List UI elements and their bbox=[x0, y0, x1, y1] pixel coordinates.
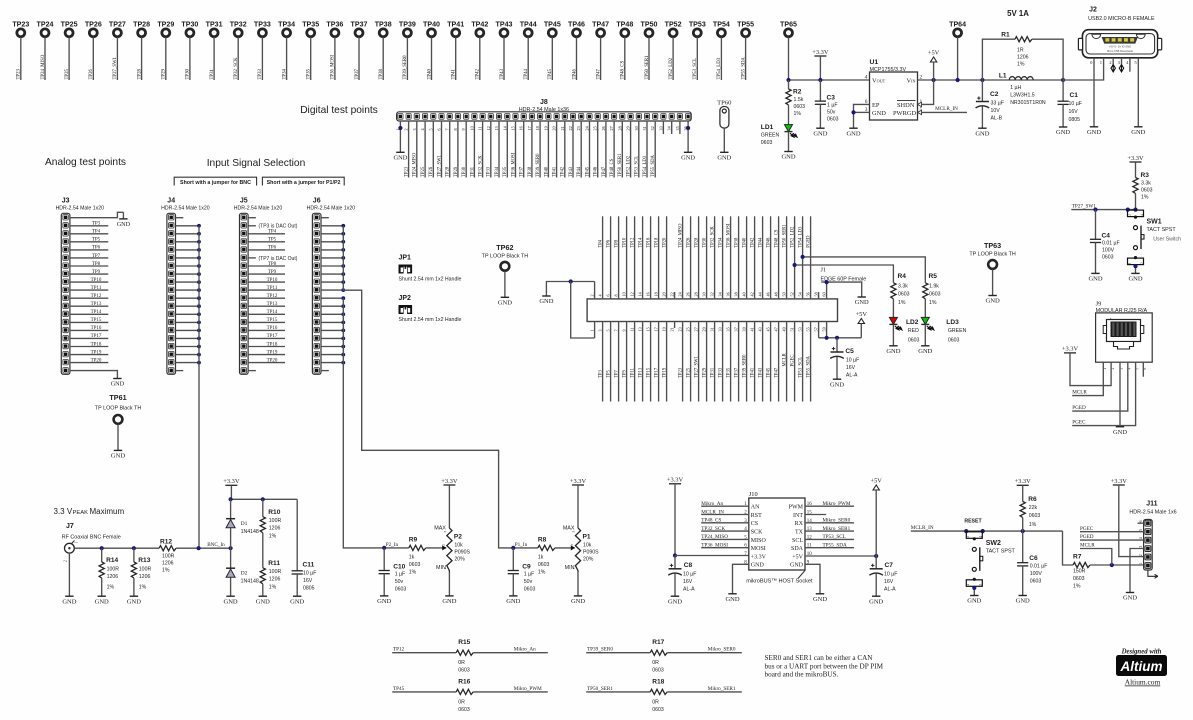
capacitor C8 10uF bbox=[673, 553, 677, 557]
svg-text:GND: GND bbox=[813, 130, 827, 137]
LED LD1 GREEN bbox=[785, 125, 793, 132]
svg-text:17: 17 bbox=[654, 327, 659, 331]
wire J4 pin5 to bus bbox=[176, 249, 200, 251]
svg-text:43: 43 bbox=[758, 327, 763, 331]
svg-text:TP55: TP55 bbox=[737, 21, 754, 29]
wire U1 EP GND to ground bbox=[854, 104, 870, 128]
wire J8 pin19 net TP40 bbox=[547, 121, 549, 178]
svg-text:0603: 0603 bbox=[652, 707, 664, 713]
svg-text:TP23: TP23 bbox=[679, 367, 684, 378]
svg-text:3: 3 bbox=[966, 536, 970, 538]
svg-text:1%: 1% bbox=[409, 570, 417, 576]
wire J1 pin25 net TP25 bbox=[690, 322, 692, 402]
svg-text:3: 3 bbox=[572, 531, 576, 533]
wire J4 pin3 to bus bbox=[176, 233, 200, 235]
wire J8 pin16 net TP37 bbox=[523, 121, 525, 178]
svg-text:INT: INT bbox=[793, 513, 803, 519]
wire J1 pin49 net MCLR bbox=[786, 322, 788, 402]
svg-text:GND: GND bbox=[62, 598, 76, 605]
svg-text:R4: R4 bbox=[898, 273, 907, 280]
svg-text:TP6: TP6 bbox=[268, 246, 277, 251]
svg-text:TP28: TP28 bbox=[137, 69, 142, 80]
diode D1 1N4148 bbox=[230, 499, 232, 518]
wire J3 pin15 net TP16 bbox=[70, 329, 108, 331]
svg-text:Mikro_SER1: Mikro_SER1 bbox=[823, 526, 851, 532]
wire J3 pin19 net TP20 bbox=[70, 362, 108, 364]
svg-text:TP11: TP11 bbox=[267, 286, 278, 291]
svg-text:TP26: TP26 bbox=[85, 21, 102, 29]
svg-text:TP13: TP13 bbox=[639, 367, 644, 378]
svg-text:16V: 16V bbox=[1069, 109, 1079, 115]
svg-text:1%: 1% bbox=[1073, 584, 1081, 590]
svg-text:0R: 0R bbox=[652, 699, 659, 705]
wire J2 pin3 D+ bbox=[1121, 58, 1123, 65]
wire J3 pin6 net TP7 bbox=[70, 257, 108, 259]
wire J1 pin46 net TP46 bbox=[770, 216, 772, 299]
wire J1 pin55 net TP55_SDA bbox=[810, 322, 812, 402]
svg-text:10k: 10k bbox=[454, 542, 463, 548]
svg-text:TP35: TP35 bbox=[727, 367, 732, 378]
svg-text:+3.3V: +3.3V bbox=[1062, 346, 1079, 353]
svg-text:TP11: TP11 bbox=[631, 367, 636, 378]
switch SW1 TACT SPST bbox=[1128, 210, 1144, 217]
svg-text:20%: 20% bbox=[583, 557, 594, 563]
svg-text:TP45: TP45 bbox=[393, 686, 405, 692]
wire J10 pin9 GND bbox=[805, 564, 820, 594]
svg-text:+5V D- D+ ID GND: +5V D- D+ ID GND bbox=[1109, 45, 1131, 49]
svg-text:R9: R9 bbox=[409, 536, 418, 543]
svg-text:RED: RED bbox=[908, 328, 919, 334]
svg-text:TP6: TP6 bbox=[92, 246, 101, 251]
svg-text:+3.3V: +3.3V bbox=[223, 478, 240, 485]
svg-text:1%: 1% bbox=[929, 300, 937, 306]
inductor L1 bbox=[1009, 77, 1033, 80]
svg-text:0805: 0805 bbox=[1069, 117, 1081, 123]
svg-text:36: 36 bbox=[726, 292, 731, 296]
svg-text:0603: 0603 bbox=[1030, 578, 1042, 584]
capacitor C3 bbox=[819, 80, 821, 101]
svg-text:GND: GND bbox=[725, 596, 739, 603]
resistor R4 bbox=[891, 283, 896, 299]
wire J1 pin44 net TP44 bbox=[762, 216, 764, 299]
wire PGED to J9 pin4 bbox=[1072, 362, 1128, 411]
svg-text:33: 33 bbox=[718, 327, 723, 331]
svg-text:C4: C4 bbox=[1102, 233, 1111, 240]
svg-text:31: 31 bbox=[642, 126, 647, 130]
svg-text:TP27_SW1: TP27_SW1 bbox=[695, 355, 700, 378]
svg-text:R1: R1 bbox=[1001, 32, 1010, 39]
svg-text:TP52_LD2: TP52_LD2 bbox=[791, 226, 796, 248]
wire J8 pin28 net TP50_SER1 bbox=[621, 121, 623, 178]
wire J6 pin11 to bus bbox=[321, 297, 343, 299]
svg-text:1 µH: 1 µH bbox=[1010, 85, 1021, 91]
capacitor C5 10uF bbox=[836, 338, 838, 352]
wire J4 pin12 to bus bbox=[176, 305, 200, 307]
svg-text:TP38: TP38 bbox=[735, 237, 740, 248]
svg-text:TP32_SCK: TP32_SCK bbox=[711, 226, 716, 248]
wire J3 pin18 net TP19 bbox=[70, 354, 108, 356]
svg-text:TP8: TP8 bbox=[92, 262, 101, 267]
svg-text:0603: 0603 bbox=[538, 562, 550, 568]
svg-text:TP34: TP34 bbox=[282, 69, 287, 80]
ground SW1 bbox=[1131, 272, 1139, 274]
svg-text:U1: U1 bbox=[870, 59, 879, 66]
capacitor C9 bbox=[512, 548, 514, 571]
svg-text:USB2.0 MICRO-B FEMALE: USB2.0 MICRO-B FEMALE bbox=[1088, 16, 1155, 22]
svg-text:TP50_SER1: TP50_SER1 bbox=[587, 686, 613, 692]
svg-text:TP26: TP26 bbox=[89, 69, 94, 80]
svg-text:18: 18 bbox=[654, 292, 659, 296]
svg-text:1%: 1% bbox=[107, 585, 115, 591]
ground TP62 bbox=[501, 296, 509, 298]
wire J1 pin47 net TP47 bbox=[778, 322, 780, 402]
wire LD3 to GND bbox=[924, 324, 926, 345]
svg-text:R6: R6 bbox=[1028, 496, 1037, 503]
svg-text:TP62: TP62 bbox=[496, 243, 513, 252]
svg-text:MCLR: MCLR bbox=[1072, 390, 1087, 396]
capacitor C10 bbox=[383, 548, 385, 571]
svg-text:AL-A: AL-A bbox=[884, 587, 896, 593]
wire J1 pin13 net TP13 bbox=[642, 322, 644, 402]
svg-text:TP48_CS: TP48_CS bbox=[610, 158, 615, 177]
wire 3.3V rail bbox=[789, 79, 870, 81]
svg-text:TP64: TP64 bbox=[949, 21, 966, 29]
svg-text:R5: R5 bbox=[929, 273, 938, 280]
svg-text:TP63: TP63 bbox=[984, 241, 1001, 250]
svg-text:TP LOOP Black TH: TP LOOP Black TH bbox=[482, 253, 529, 259]
ground P2 bbox=[445, 595, 453, 597]
resistor R7 bbox=[1063, 531, 1074, 565]
svg-text:TP42: TP42 bbox=[751, 237, 756, 248]
svg-text:100R: 100R bbox=[139, 566, 152, 572]
svg-text:6: 6 bbox=[606, 294, 611, 296]
svg-text:TP54_LD3: TP54_LD3 bbox=[717, 57, 722, 79]
wire J8 pin11 net TP32_SCK bbox=[482, 121, 484, 178]
svg-text:TP15: TP15 bbox=[267, 318, 278, 323]
wire J1 pin58 stub bbox=[818, 292, 820, 299]
svg-text:TP25: TP25 bbox=[61, 21, 78, 29]
svg-text:TP48: TP48 bbox=[616, 21, 633, 29]
svg-text:GND: GND bbox=[1087, 129, 1101, 136]
svg-text:board and the mikroBUS.: board and the mikroBUS. bbox=[765, 671, 839, 679]
svg-text:9: 9 bbox=[461, 128, 466, 130]
svg-text:SHDN: SHDN bbox=[897, 102, 915, 109]
svg-text:TP4: TP4 bbox=[268, 230, 277, 235]
svg-text:1k: 1k bbox=[538, 555, 544, 561]
svg-text:TP14: TP14 bbox=[639, 237, 644, 248]
wire J10 pin13 Mikro_SER1 bbox=[805, 530, 854, 532]
wire J5 pin7 TP8 bbox=[248, 265, 285, 267]
svg-text:TP34: TP34 bbox=[278, 21, 295, 29]
wire J8 pin5 net TP26 bbox=[432, 121, 434, 178]
svg-text:41: 41 bbox=[750, 327, 755, 331]
svg-text:100R: 100R bbox=[162, 554, 175, 560]
svg-text:RF Coaxial BNC Female: RF Coaxial BNC Female bbox=[62, 535, 121, 541]
wire J4 pin11 to bus bbox=[176, 297, 200, 299]
svg-text:TP30: TP30 bbox=[703, 237, 708, 248]
ground R14 bbox=[98, 595, 106, 597]
wire J2 pin5 GND bbox=[1137, 58, 1139, 127]
svg-text:1206: 1206 bbox=[269, 576, 281, 582]
wire J4 pin7 to bus bbox=[176, 265, 200, 267]
svg-text:TP54_LD3: TP54_LD3 bbox=[643, 155, 648, 177]
svg-text:R8: R8 bbox=[538, 536, 547, 543]
svg-text:Mikro_PWM: Mikro_PWM bbox=[823, 501, 851, 507]
svg-text:0603: 0603 bbox=[948, 338, 960, 344]
svg-text:MCLR: MCLR bbox=[1080, 543, 1095, 549]
svg-text:0R: 0R bbox=[458, 699, 465, 705]
ground TP61 bbox=[114, 449, 122, 451]
wire J6 pin7 to bus bbox=[321, 265, 343, 267]
svg-text:26: 26 bbox=[601, 126, 606, 130]
svg-text:GND: GND bbox=[224, 598, 238, 605]
wire J5 pin8 TP9 bbox=[248, 273, 285, 275]
svg-text:27: 27 bbox=[609, 126, 614, 130]
svg-text:12: 12 bbox=[486, 126, 491, 130]
capacitor C11 bbox=[296, 499, 298, 571]
resistor R10 bbox=[262, 499, 264, 516]
svg-text:1%: 1% bbox=[1141, 195, 1149, 201]
svg-text:GND: GND bbox=[872, 110, 886, 117]
svg-text:TP7: TP7 bbox=[615, 370, 620, 378]
wire PGED to J11 pin4 bbox=[1080, 539, 1144, 541]
resistor R16 bbox=[456, 689, 473, 694]
wire J10 pin2 MCLR_IN bbox=[701, 514, 749, 516]
svg-text:50v: 50v bbox=[827, 110, 836, 116]
svg-text:TP47: TP47 bbox=[775, 367, 780, 378]
wire J5 pin6 (TP7 is DAC Out) bbox=[248, 257, 256, 259]
svg-text:5V 1A: 5V 1A bbox=[1007, 9, 1029, 18]
svg-text:15: 15 bbox=[511, 126, 516, 130]
svg-text:53: 53 bbox=[798, 327, 803, 331]
svg-text:HDR-2.54 Male 1x20: HDR-2.54 Male 1x20 bbox=[161, 206, 210, 212]
svg-text:Mikro_An: Mikro_An bbox=[701, 501, 723, 507]
ground TP63 bbox=[988, 295, 996, 297]
svg-text:49: 49 bbox=[782, 327, 787, 331]
svg-text:+3.3V: +3.3V bbox=[751, 554, 767, 560]
svg-text:J4: J4 bbox=[167, 198, 175, 205]
svg-text:GND: GND bbox=[1088, 276, 1102, 283]
svg-text:+3.3V: +3.3V bbox=[570, 478, 587, 485]
svg-text:TP30: TP30 bbox=[181, 21, 198, 29]
svg-text:100V: 100V bbox=[1030, 571, 1043, 577]
wire J5 pin4 TP5 bbox=[248, 241, 285, 243]
svg-text:GND: GND bbox=[571, 598, 585, 605]
svg-text:TP33: TP33 bbox=[258, 69, 263, 80]
wire J8 pin26 net TP47 bbox=[605, 121, 607, 178]
wire J1 pin28 net TP28 bbox=[698, 216, 700, 299]
svg-text:TP19: TP19 bbox=[267, 350, 278, 355]
wire J8 pin22 net TP43 bbox=[572, 121, 574, 178]
svg-text:C10: C10 bbox=[393, 564, 405, 571]
wire J4 pin9 to bus bbox=[176, 281, 200, 283]
wire J10 pin3 TP48_CS bbox=[701, 522, 749, 524]
svg-text:TP18: TP18 bbox=[91, 342, 102, 347]
svg-text:1.5k: 1.5k bbox=[794, 97, 804, 103]
wire J8 pin15 net TP36_MOSI bbox=[515, 121, 517, 178]
svg-text:Mikro_SER1: Mikro_SER1 bbox=[708, 686, 736, 692]
svg-text:22: 22 bbox=[568, 126, 573, 130]
net Mikro_An wire bbox=[473, 652, 548, 654]
wire J8 pin17 net TP38 bbox=[531, 121, 533, 178]
svg-text:20: 20 bbox=[662, 292, 667, 296]
svg-text:SDA: SDA bbox=[791, 546, 804, 552]
svg-text:TP39: TP39 bbox=[399, 21, 416, 29]
ground LD2 bbox=[889, 345, 897, 347]
svg-text:SCL: SCL bbox=[792, 538, 803, 544]
svg-text:TP43: TP43 bbox=[569, 166, 574, 177]
svg-text:16V: 16V bbox=[683, 579, 693, 585]
wire LD2 to GND bbox=[892, 324, 894, 345]
svg-text:R2: R2 bbox=[793, 89, 802, 96]
svg-text:0603: 0603 bbox=[652, 668, 664, 674]
wire J5 pin1 stub bbox=[248, 217, 256, 219]
wire J5 pin11 TP12 bbox=[248, 297, 285, 299]
svg-text:TP47: TP47 bbox=[592, 21, 609, 29]
svg-text:20: 20 bbox=[552, 126, 557, 130]
svg-text:EP: EP bbox=[872, 102, 880, 109]
wire J3 pin13 net TP14 bbox=[70, 313, 108, 315]
resistor R12 bbox=[159, 546, 176, 551]
svg-text:28: 28 bbox=[617, 126, 622, 130]
svg-text:TP LOOP Black TH: TP LOOP Black TH bbox=[95, 406, 142, 412]
wire J4 pin10 to bus bbox=[176, 289, 200, 291]
svg-text:1: 1 bbox=[395, 128, 400, 130]
svg-text:50: 50 bbox=[782, 292, 787, 296]
wire J1 pin20 net TP20 bbox=[666, 216, 668, 299]
svg-text:1: 1 bbox=[1127, 262, 1131, 264]
net Mikro_SER0 wire bbox=[667, 652, 742, 654]
ground C2 bbox=[978, 127, 986, 129]
svg-text:TP15: TP15 bbox=[647, 367, 652, 378]
svg-text:0603: 0603 bbox=[1141, 188, 1153, 194]
svg-text:TP42: TP42 bbox=[471, 21, 488, 29]
svg-text:TP43: TP43 bbox=[500, 69, 505, 80]
ground C5 bbox=[833, 378, 841, 380]
svg-text:TP28: TP28 bbox=[695, 237, 700, 248]
svg-text:GND: GND bbox=[918, 348, 932, 355]
wire J8 pin24 net TP45 bbox=[589, 121, 591, 178]
svg-text:26: 26 bbox=[686, 292, 691, 296]
svg-text:IN: IN bbox=[911, 79, 915, 84]
svg-text:P1: P1 bbox=[583, 534, 591, 541]
svg-text:J3: J3 bbox=[62, 198, 70, 205]
svg-text:TP27_SW1: TP27_SW1 bbox=[1072, 204, 1097, 210]
ground D2 bbox=[226, 595, 234, 597]
svg-text:45: 45 bbox=[766, 327, 771, 331]
svg-text:D2: D2 bbox=[241, 571, 248, 577]
svg-text:GND: GND bbox=[813, 596, 827, 603]
wire J10 pin14 Mikro_SER0 bbox=[805, 522, 854, 524]
wire J5 pin3 TP4 bbox=[248, 233, 285, 235]
ground C3 bbox=[816, 127, 824, 129]
svg-text:TP11: TP11 bbox=[91, 286, 102, 291]
wire TP63 to GND bbox=[992, 270, 994, 296]
resistor R3 bbox=[1135, 162, 1137, 178]
svg-text:2: 2 bbox=[1140, 262, 1144, 264]
svg-text:22k: 22k bbox=[1029, 505, 1038, 511]
ground C7 bbox=[872, 595, 880, 597]
svg-text:TP42: TP42 bbox=[476, 69, 481, 80]
svg-text:GND: GND bbox=[681, 155, 695, 162]
wire J4 pin20 stub bbox=[176, 370, 184, 372]
ground J2 shield bbox=[1090, 126, 1098, 128]
svg-text:MCLR_IN: MCLR_IN bbox=[911, 525, 934, 531]
svg-text:8: 8 bbox=[614, 294, 619, 296]
ground J11 bbox=[1126, 592, 1134, 594]
wire +3.3V to J9 pin2 bbox=[1070, 353, 1111, 386]
svg-text:TP50: TP50 bbox=[641, 21, 658, 29]
svg-text:TP44: TP44 bbox=[524, 69, 529, 80]
svg-text:TACT SPST: TACT SPST bbox=[1147, 227, 1177, 233]
svg-text:50v: 50v bbox=[395, 579, 404, 585]
svg-text:TP18: TP18 bbox=[267, 342, 278, 347]
svg-text:10 µF: 10 µF bbox=[884, 572, 897, 578]
LED LD3 GREEN bbox=[921, 317, 929, 324]
svg-text:TP30: TP30 bbox=[186, 69, 191, 80]
svg-text:TP17: TP17 bbox=[267, 334, 278, 339]
svg-text:TP29: TP29 bbox=[157, 21, 174, 29]
ground J8 pin1 bbox=[396, 151, 404, 153]
svg-text:MAX: MAX bbox=[434, 525, 446, 531]
svg-text:TP47: TP47 bbox=[602, 166, 607, 177]
svg-text:2: 2 bbox=[64, 560, 68, 562]
svg-text:1: 1 bbox=[572, 568, 576, 570]
svg-text:TP24_MISO: TP24_MISO bbox=[413, 152, 418, 177]
svg-text:Input Signal Selection: Input Signal Selection bbox=[207, 158, 306, 169]
svg-text:TP50_SER1: TP50_SER1 bbox=[645, 55, 650, 80]
svg-text:R10: R10 bbox=[268, 509, 280, 516]
capacitor C2 33uF bbox=[981, 80, 983, 102]
wire J1 pin53 net TP53_SCL bbox=[802, 322, 804, 402]
svg-text:TP47: TP47 bbox=[596, 69, 601, 80]
svg-text:TP55_SDA: TP55_SDA bbox=[651, 155, 656, 177]
wire J3 pin1 to GND bbox=[70, 212, 124, 217]
svg-text:21: 21 bbox=[560, 126, 565, 130]
ground U1 bbox=[849, 127, 857, 129]
svg-text:P090S: P090S bbox=[583, 550, 599, 556]
svg-text:R3: R3 bbox=[1141, 172, 1150, 179]
svg-text:16V: 16V bbox=[846, 365, 856, 371]
svg-text:JP1: JP1 bbox=[399, 255, 412, 262]
wire J4 pin15 to bus bbox=[176, 329, 200, 331]
resistor R5 bbox=[923, 283, 928, 299]
svg-text:TX: TX bbox=[795, 530, 804, 536]
svg-text:TP61: TP61 bbox=[109, 393, 126, 402]
wire J6 upper bus to P1_In bbox=[343, 226, 513, 548]
svg-text:TP45: TP45 bbox=[544, 21, 561, 29]
svg-text:2: 2 bbox=[442, 544, 446, 546]
svg-text:4: 4 bbox=[1139, 537, 1143, 539]
wire J11 pin3 to GND bbox=[1130, 549, 1144, 593]
wire TP61 to GND bbox=[117, 424, 119, 450]
svg-text:GND: GND bbox=[1113, 429, 1127, 436]
svg-text:47: 47 bbox=[774, 327, 779, 331]
svg-text:Maximum: Maximum bbox=[90, 507, 125, 516]
svg-text:TP20: TP20 bbox=[91, 358, 102, 363]
svg-text:GND: GND bbox=[1131, 129, 1145, 136]
svg-text:TP41: TP41 bbox=[452, 69, 457, 80]
ground P1 bbox=[574, 595, 582, 597]
svg-text:bus or a UART port between the: bus or a UART port between the DP PIM bbox=[765, 662, 884, 670]
svg-text:NR3015T1R0N: NR3015T1R0N bbox=[1010, 100, 1046, 106]
svg-text:GND: GND bbox=[111, 453, 126, 460]
svg-text:+5V: +5V bbox=[928, 49, 940, 56]
svg-text:1: 1 bbox=[966, 584, 970, 586]
wire J9 pin3 to GND bbox=[1119, 362, 1121, 427]
svg-text:C5: C5 bbox=[845, 348, 854, 355]
svg-text:Altium.com: Altium.com bbox=[1125, 678, 1161, 687]
